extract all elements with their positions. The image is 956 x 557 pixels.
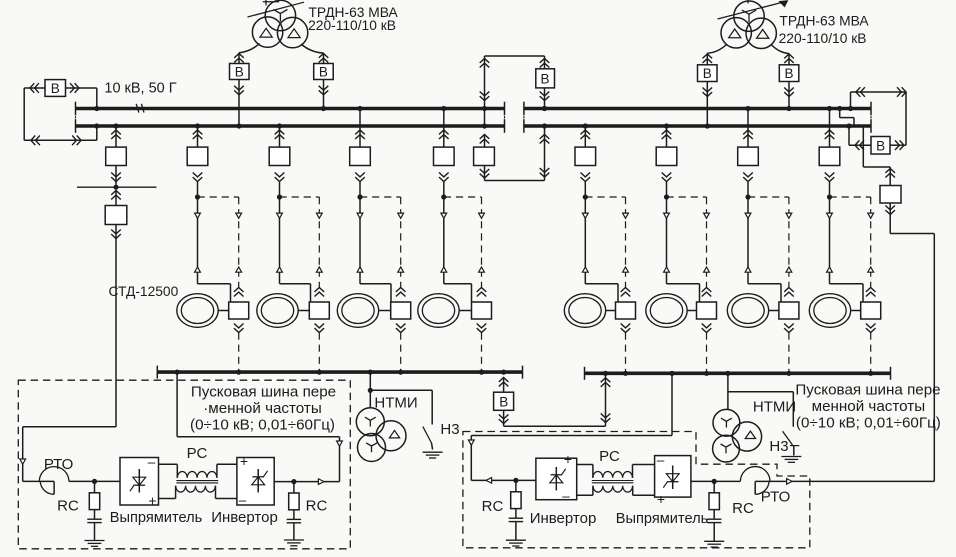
label T2 220-110/10 kV (779, 31, 867, 46)
feeder R2 (656, 123, 677, 181)
dashed excitation line M6 (706, 197, 708, 287)
disconnector arrows under sub-bus (111, 191, 121, 200)
wire right-end feeder to right edge (890, 203, 934, 481)
label RC 1 left (57, 498, 79, 515)
motor M7 STD-12500 (727, 294, 768, 328)
svg-text:Инвертор: Инвертор (211, 509, 278, 526)
RC branch 2 left (284, 479, 304, 546)
right converter dashed enclosure (463, 432, 810, 548)
wire tie right to bus1 (544, 88, 546, 109)
wire T1 left leg (239, 44, 260, 64)
wire motor M7 to box (769, 310, 779, 312)
label T2 TRDN-63 MVA (779, 14, 869, 29)
breaker B bus-tie left box (45, 80, 66, 97)
wire starting-bus link right (471, 371, 674, 481)
svg-text:В: В (51, 81, 60, 96)
disconnector arrows above excitation box M8 (866, 288, 876, 297)
dashed excitation branch M8 (830, 196, 871, 198)
label PC left (187, 445, 208, 462)
connector arrows on excitation M6 (704, 213, 710, 272)
feeder 116 upper disconnector+box (106, 123, 127, 181)
connector arrows on motor feeder M2 (277, 213, 283, 272)
svg-text:+: + (564, 451, 572, 467)
wire starting-bus link left (label box sides) (175, 370, 340, 482)
wire motor feeder M1 (198, 182, 231, 302)
svg-text:(0÷10 кВ; 0,01÷60Гц): (0÷10 кВ; 0,01÷60Гц) (796, 415, 941, 432)
disconnector arrows tie left under top (480, 59, 490, 68)
breaker B right-end box (871, 137, 890, 155)
reactor PTO left (23, 467, 95, 495)
svg-text:+: + (148, 493, 156, 509)
disconnector arrows link right lower (540, 168, 550, 177)
node link right bus2 (542, 106, 547, 129)
label rectifier right (616, 511, 708, 527)
wire right loop top (851, 91, 907, 93)
switchgear box right-end feeder (880, 167, 901, 203)
disconnector arrows below centre B (540, 92, 550, 101)
label inverter right (530, 510, 597, 527)
disconnector arrows above B T2 right (784, 54, 794, 63)
rectifier box left (120, 458, 159, 506)
NTMI left transformer circles (356, 408, 406, 462)
disconnector arrows right-end feeder (885, 169, 895, 178)
breaker B T2 left box (698, 65, 718, 82)
disconnector arrows left of B (30, 83, 39, 93)
svg-text:В: В (784, 66, 793, 81)
wire right loop down (890, 92, 906, 145)
svg-text:В: В (235, 64, 244, 79)
dashed drop to starting bus M1 (236, 333, 241, 375)
svg-text:В: В (499, 394, 508, 409)
wire T2 left leg (707, 45, 726, 65)
connector arrows on motor feeder M1 (195, 213, 201, 272)
wire motor feeder M2 (280, 182, 311, 302)
smoothing reactor PC right top (577, 465, 655, 478)
dashed excitation line M8 (870, 197, 872, 287)
node branch dot feeder M5 (583, 194, 588, 199)
wire motor M6 to box (687, 310, 696, 312)
svg-text:–: – (657, 453, 665, 468)
polarity marks inverter left (239, 453, 248, 508)
disconnector arrows below box 484 (480, 169, 490, 178)
connector arrow inverter output left (318, 479, 324, 485)
disconnector arrows above excitation box M7 (784, 288, 794, 297)
dashed excitation line M2 (318, 197, 320, 287)
svg-text:RC: RC (732, 500, 754, 517)
wire rectifier right AC (691, 480, 741, 482)
label starting bus left line3 (190, 417, 335, 434)
dashed excitation branch M4 (444, 196, 482, 198)
connector arrows on motor feeder M8 (827, 213, 833, 272)
wire feeder 116 down to PTO corner (23, 225, 116, 482)
wire motor feeder M3 (360, 182, 391, 302)
connector arrow PTO right (787, 479, 793, 485)
label PTO left (44, 456, 74, 473)
excitation box M3 (391, 302, 411, 319)
ground NTMI right (781, 457, 801, 463)
frequency break mark on bus 1 (136, 104, 144, 113)
svg-text:B: B (540, 72, 549, 87)
inverter box left (237, 458, 274, 506)
node branch dot feeder M1 (195, 194, 200, 199)
bus terminator bars right-centre end (523, 102, 525, 133)
motor M5 STD-12500 (564, 294, 605, 328)
wire T2 right leg (772, 45, 790, 65)
motor M8 STD-12500 (809, 294, 850, 328)
wire B transfer link (504, 373, 606, 426)
disconnector arrows above excitation box M3 (396, 288, 406, 297)
wire right loop riser (848, 92, 853, 111)
wire NTMI left to switch (370, 390, 432, 424)
wire right-end feeder down (863, 127, 890, 167)
dashed excitation branch M5 (585, 196, 625, 198)
disconnector arrows above excitation box M6 (702, 288, 712, 297)
label starting bus right line3 (796, 415, 941, 432)
disconnector arrows above excitation box M5 (621, 288, 631, 297)
label starting bus left line2 (203, 400, 322, 417)
disconnector arrows below box2 feeder 116 (111, 230, 121, 239)
ground NTMI left (423, 452, 443, 458)
disconnector arrows right of B (70, 83, 79, 93)
dashed drop to starting bus M2 (317, 333, 322, 375)
connector arrow on PTO drop (20, 459, 26, 464)
connector arrows on excitation M2 (316, 213, 322, 272)
connector arrows on motor feeder M5 (582, 213, 588, 272)
label N3 right (769, 438, 788, 455)
disconnector arrows below excitation box M2 (315, 324, 325, 333)
disconnector arrows left of B right-end (855, 140, 864, 150)
svg-text:ТРДН-63 МВА: ТРДН-63 МВА (779, 14, 869, 29)
label inverter left (211, 509, 278, 526)
smoothing reactor PC left core (176, 481, 218, 483)
switchgear box 2 feeder 116 (105, 191, 127, 225)
polarity marks inverter right (562, 451, 572, 504)
motor M1 STD-12500 (177, 294, 218, 328)
disconnector arrows loop bottom left (31, 136, 40, 146)
label starting bus left line1 (191, 383, 336, 400)
wire inverter output left (274, 481, 339, 483)
disconnector arrows tie left above bus1 (480, 92, 490, 101)
disconnector arrows below right-end feeder box (885, 206, 895, 215)
wire to rectifier left (95, 480, 121, 482)
wire left of B right-end (846, 123, 871, 145)
wire T2 right leg to bus1 (786, 82, 791, 112)
feeder F2 (187, 123, 208, 181)
svg-text:РС: РС (599, 448, 620, 465)
wire motor M5 to box (606, 310, 616, 312)
wire motor feeder M4 (444, 182, 472, 302)
breaker B centre box (536, 69, 555, 88)
dashed excitation branch M3 (360, 196, 401, 198)
disconnector arrows right of B right-end (895, 140, 904, 150)
polarity marks rectifier left (148, 455, 157, 509)
label rectifier left (110, 510, 202, 526)
svg-text:РТО: РТО (44, 456, 74, 473)
RC branch 1 left (85, 479, 105, 547)
transformer T2 (TRDN-63 MVA) winding circles (721, 1, 776, 49)
svg-text:(0÷10 кВ; 0,01÷60Гц): (0÷10 кВ; 0,01÷60Гц) (190, 417, 335, 434)
bus section 2 left (10 kV busbar B) (76, 124, 505, 128)
svg-text:220-110/10 кВ: 220-110/10 кВ (308, 18, 396, 33)
svg-text:–: – (239, 493, 247, 508)
disconnector arrows tie right under top (540, 59, 550, 68)
RC branch 1 right (506, 478, 526, 546)
svg-text:Н3: Н3 (440, 421, 459, 438)
disconnector arrows right loop left (856, 87, 865, 97)
wire motor M3 to box (379, 310, 391, 312)
motor M4 STD-12500 (418, 294, 459, 328)
svg-text:менной частоты: менной частоты (812, 398, 926, 415)
connector arrow inverter output right (486, 478, 492, 484)
svg-text:РС: РС (187, 445, 208, 462)
label starting bus right line2 (812, 398, 926, 415)
disconnector arrows transfer right lower (601, 414, 611, 423)
dashed excitation line M3 (400, 197, 402, 287)
wire motor feeder M6 (667, 182, 700, 302)
label T1 TRDN-63 MVA (309, 5, 399, 20)
node branch dot feeder M6 (664, 194, 669, 199)
dashed drop to starting bus M6 (704, 333, 709, 376)
svg-text:+: + (240, 453, 248, 469)
label 10 kV 50 Hz (104, 80, 176, 96)
node tie left bus1 (482, 106, 487, 111)
svg-text:Инвертор: Инвертор (530, 510, 597, 527)
wire centre tie right riser upper (544, 56, 546, 69)
svg-text:В: В (703, 66, 712, 81)
disconnector arrows transfer right upper (601, 378, 611, 387)
svg-text:Выпрямитель: Выпрямитель (110, 510, 202, 526)
connector arrows on motor feeder M4 (441, 213, 447, 272)
transformer T1 (TRDN-63 MVA) winding circles (252, 0, 307, 47)
label PTO right (761, 489, 791, 506)
dashed drop to starting bus M3 (398, 333, 403, 375)
node branch dot feeder M2 (277, 194, 282, 199)
svg-text:RC: RC (306, 498, 328, 515)
node branch dot feeder M7 (745, 194, 750, 199)
connector arrows on excitation M5 (623, 213, 629, 272)
wire motor feeder M5 (585, 182, 618, 302)
bus terminator bars left-centre end (504, 102, 506, 133)
label starting bus right line1 (795, 381, 940, 398)
svg-text:220-110/10 кВ: 220-110/10 кВ (779, 31, 867, 46)
connector arrows on excitation M7 (786, 213, 792, 272)
svg-text:B: B (876, 139, 885, 154)
sub-bus at y187 (77, 166, 157, 190)
connector arrows on motor feeder M3 (357, 213, 363, 272)
disconnector arrows below excitation box M6 (702, 324, 712, 333)
disconnector arrows loop bottom right (72, 136, 81, 146)
dashed excitation line M7 (788, 197, 790, 287)
connector arrow right riser (468, 440, 474, 445)
motor M3 STD-12500 (337, 294, 378, 328)
label RC 2 left (306, 498, 328, 515)
connector arrows on motor feeder M7 (745, 213, 751, 272)
dashed excitation line M1 (238, 197, 240, 287)
svg-text:+: + (657, 491, 665, 507)
feeder F5 (434, 106, 455, 182)
reactor PTO right (740, 467, 934, 495)
disconnector arrows below B T1 right (319, 86, 329, 95)
node bus2 tie-in (94, 123, 99, 128)
switchgear box feeder 484 (474, 135, 495, 166)
svg-text:RC: RC (482, 498, 504, 515)
dashed excitation branch M7 (748, 196, 789, 198)
connector arrows on motor feeder M6 (664, 213, 670, 272)
node branch dot feeder M3 (357, 194, 362, 199)
node bus1 tie-in (94, 106, 99, 111)
wire motor M4 to box (459, 310, 471, 312)
dashed excitation branch M1 (198, 196, 239, 198)
wire bus-tie left loop (24, 88, 97, 140)
label NTMI left (374, 395, 417, 412)
breaker B T2 right box (779, 65, 799, 82)
wire T2 left leg to bus2 (705, 82, 710, 129)
smoothing reactor PC right bottom (577, 486, 655, 496)
disconnector arrows below B transfer (499, 415, 509, 424)
dashed drop to starting bus M5 (623, 333, 628, 376)
disconnector arrows above excitation box M2 (315, 288, 325, 297)
feeder R3 (738, 106, 759, 182)
svg-text:Пусковая шина пере: Пусковая шина пере (191, 383, 336, 400)
dashed excitation branch M2 (280, 196, 320, 198)
excitation box M6 (697, 302, 717, 319)
feeder R1 (575, 123, 596, 181)
polarity marks rectifier right (657, 453, 665, 508)
zigzag jumper bus1-bus2 right end (837, 106, 854, 125)
disconnector arrows above B T1 right (319, 54, 329, 63)
svg-text:В: В (319, 64, 328, 79)
label RC 1 right (482, 498, 504, 515)
svg-text:RC: RC (57, 498, 79, 515)
node branch dot feeder M4 (441, 194, 446, 199)
connector arrows on excitation M1 (236, 213, 242, 272)
wire bus-tie left top (66, 88, 97, 109)
label NTMI right (753, 399, 796, 416)
disconnector arrows above excitation box M4 (477, 288, 487, 297)
breaker B T1 left box (230, 64, 250, 80)
excitation box M4 (472, 302, 492, 319)
connector arrows on excitation M3 (398, 213, 404, 272)
smoothing reactor PC right core (592, 481, 634, 483)
dashed excitation line M4 (481, 197, 483, 287)
wire NTMI right drop (727, 373, 729, 410)
disconnector arrows below B T2 left (703, 88, 713, 97)
wire T1 right leg (301, 44, 324, 64)
wire centre tie top (485, 55, 545, 57)
node B-transfer right (603, 371, 608, 376)
wire motor M8 to box (851, 310, 861, 312)
motor M2 STD-12500 (257, 294, 298, 328)
excitation box M8 (861, 302, 881, 319)
disconnector arrows below excitation box M7 (784, 324, 794, 333)
disconnector arrows below excitation box M4 (477, 324, 487, 333)
breaker B transfer box (494, 378, 514, 411)
svg-text:–: – (562, 489, 570, 504)
feeder R4 (819, 106, 840, 182)
node branch dot feeder M8 (827, 194, 832, 199)
disconnector arrows below B T2 right (784, 88, 794, 97)
motor M6 STD-12500 (646, 294, 687, 328)
disconnector arrows above B T2 left (703, 54, 713, 63)
excitation box M7 (779, 302, 799, 319)
disconnector arrows below bus2 feeder 484 (480, 135, 490, 144)
node B-transfer left (501, 370, 506, 375)
connector arrows on excitation M4 (479, 213, 485, 272)
feeder F4 (350, 106, 371, 182)
wire motor M2 to box (298, 310, 309, 312)
wire motor feeder M8 (830, 182, 864, 302)
disconnector arrows above excitation box M1 (234, 288, 244, 297)
feeder F3 (269, 123, 290, 181)
disconnector arrows above B T1 left (234, 54, 244, 63)
svg-text:Выпрямитель: Выпрямитель (616, 511, 708, 527)
starting bus right (585, 367, 891, 380)
excitation box M1 (229, 302, 249, 319)
bus section 2 right (524, 124, 871, 128)
wire motor M1 to box (218, 310, 229, 312)
dashed drop to starting bus M7 (786, 333, 791, 376)
bus terminator bars left end (75, 102, 77, 133)
bus section 1 right (524, 107, 871, 111)
wire motor feeder M7 (748, 182, 781, 302)
connector arrows on excitation M8 (868, 213, 874, 272)
incoming 220 kV line at T1 (248, 0, 305, 17)
label STD-12500 (109, 284, 179, 299)
svg-text:СТД-12500: СТД-12500 (109, 284, 179, 299)
excitation box M5 (616, 302, 636, 319)
bus section 1 left (10 kV busbar A) (76, 107, 505, 111)
left converter dashed enclosure (18, 380, 350, 549)
label T1 220-110/10 kV (308, 18, 396, 33)
starting bus left (157, 366, 522, 379)
smoothing reactor PC left top (159, 464, 237, 478)
dashed drop to starting bus M8 (868, 333, 873, 376)
wire feeder 484 bus1-bus2 (482, 109, 487, 129)
inverter box right (536, 458, 577, 500)
disconnector arrows below excitation box M5 (621, 324, 631, 333)
disconnector arrows below excitation box M3 (396, 324, 406, 333)
disconnector arrows below excitation box M1 (234, 324, 244, 333)
excitation box M2 (309, 302, 329, 319)
svg-text:РТО: РТО (761, 489, 791, 506)
svg-text:Н3: Н3 (769, 438, 788, 455)
RC branch 2 right (704, 479, 724, 547)
disconnector arrows below excitation box M8 (866, 324, 876, 333)
node NTMI right (725, 371, 730, 376)
disconnector arrows right loop right (897, 87, 906, 97)
svg-text:НТМИ: НТМИ (753, 399, 796, 416)
dashed drop to starting bus M4 (479, 333, 484, 375)
bus terminator bars right end (870, 102, 872, 133)
label RC 2 right (732, 500, 754, 517)
svg-text:10 кВ, 50 Г: 10 кВ, 50 Г (104, 80, 176, 96)
node tie right bus1 (542, 106, 547, 111)
breaker B T1 right box (314, 64, 334, 80)
wire T1 right leg to bus1 (321, 80, 326, 112)
svg-text:·менной частоты: ·менной частоты (203, 400, 322, 417)
wire box484 to 544 link (485, 126, 545, 181)
rectifier box right (655, 456, 691, 498)
NTMI right transformer circles (713, 409, 762, 462)
dashed excitation line M5 (625, 197, 627, 287)
disconnector arrows link right upper (540, 135, 550, 144)
wire NTMI left drop (368, 372, 373, 408)
disconnector arrows below left starting bus (499, 378, 509, 387)
wire T1 left leg to bus2 (236, 80, 241, 129)
svg-text:Пусковая шина пере: Пусковая шина пере (795, 381, 940, 398)
dashed excitation branch M6 (667, 196, 707, 198)
disconnector arrows below B T1 left (234, 86, 244, 95)
